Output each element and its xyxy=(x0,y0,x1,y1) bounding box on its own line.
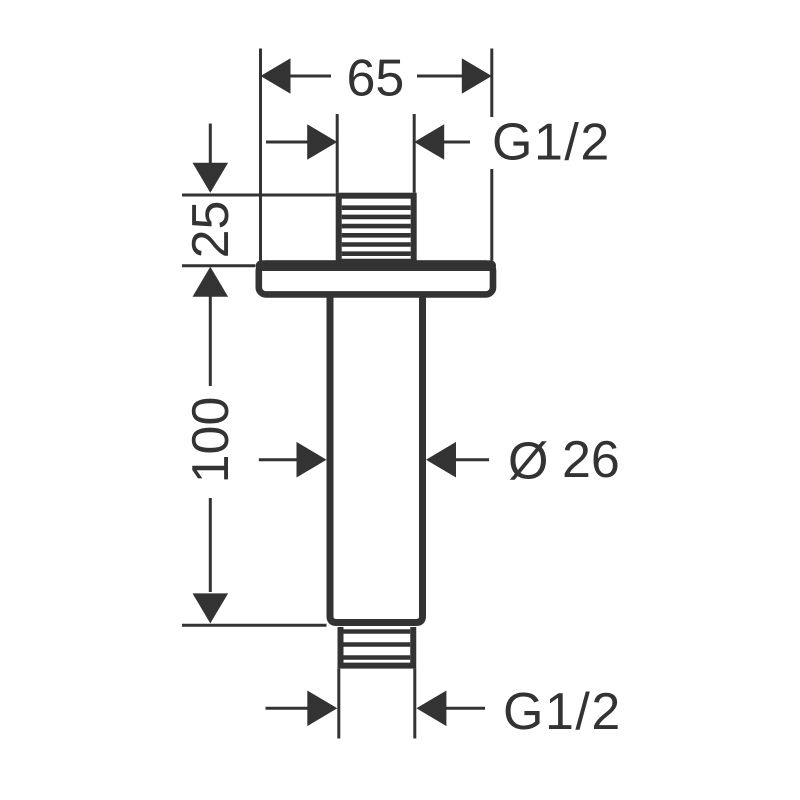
svg-text:65: 65 xyxy=(346,50,404,108)
svg-text:Ø: Ø xyxy=(508,433,548,491)
svg-text:25: 25 xyxy=(182,201,240,259)
svg-text:26: 26 xyxy=(562,431,620,489)
svg-text:G1/2: G1/2 xyxy=(492,114,611,172)
svg-text:100: 100 xyxy=(182,397,240,484)
svg-text:G1/2: G1/2 xyxy=(503,683,622,741)
